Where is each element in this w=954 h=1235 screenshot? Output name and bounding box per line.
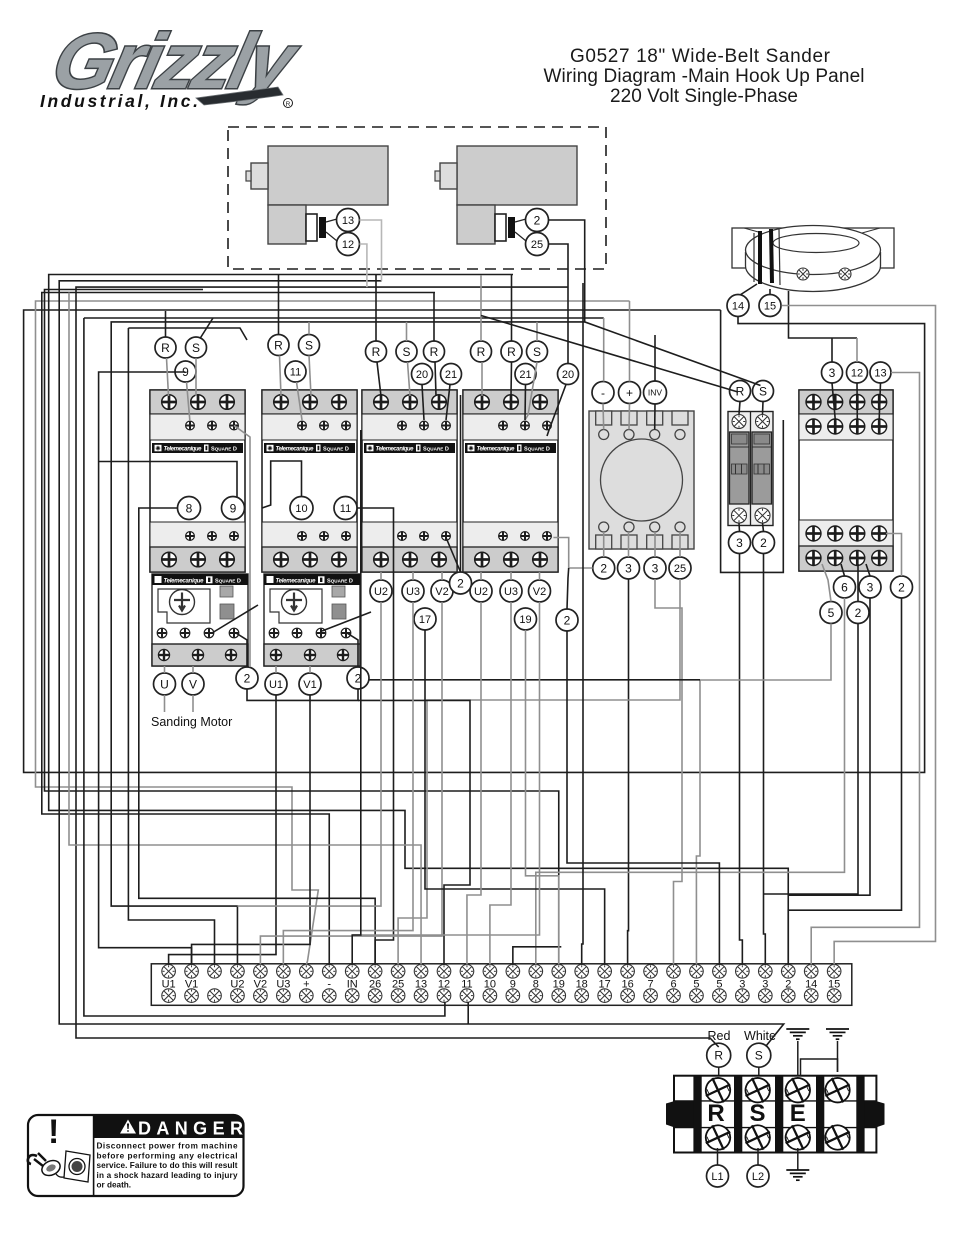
wire psu 3 wire to col 16 (627, 579, 630, 965)
terminal - column (322, 965, 336, 1003)
relay screw (872, 395, 887, 410)
wire KM1 OL diag (212, 605, 258, 633)
breaker screw top right (756, 415, 770, 429)
svg-text:Red: Red (708, 1029, 731, 1043)
relay screw (806, 395, 821, 410)
node 20 above KM3 (412, 364, 433, 385)
node S above breaker (753, 381, 774, 402)
relay screw (828, 526, 843, 541)
wire stub 21 KM4 dn (524, 385, 527, 421)
relay screw (872, 526, 887, 541)
relay screw (828, 551, 843, 566)
wire net D to col 19 (45, 290, 559, 965)
terminal 5 column (690, 965, 704, 1003)
block screw top (822, 1075, 853, 1106)
svg-text:2: 2 (534, 213, 541, 227)
svg-text:20: 20 (416, 369, 428, 381)
node R above breaker (730, 381, 751, 402)
svg-text:2: 2 (855, 606, 862, 620)
brake band screw left (797, 268, 809, 280)
brake band screw right (839, 268, 851, 280)
svg-text:U2: U2 (474, 586, 488, 598)
wire stub R2 KM4 dn (510, 362, 513, 396)
wire relay 5 to col 5 (696, 624, 831, 965)
wire relay 2b to col 3 (764, 624, 859, 895)
wire stub S KM3 up (406, 322, 408, 341)
node R above KM3 (366, 341, 387, 362)
wire KM4 2b wire to col 5 (567, 568, 569, 609)
svg-text:before performing any electric: before performing any electrical (97, 1151, 238, 1160)
node S above KM4 (527, 341, 548, 362)
wire net H minus bus (84, 317, 604, 319)
wire KM2 V1 stub (309, 666, 311, 673)
wire to 14 (740, 284, 757, 295)
node 9 above KM1 (175, 361, 196, 382)
terminal 15 column (827, 965, 841, 1003)
svg-text:2: 2 (760, 536, 767, 550)
svg-text:V2: V2 (435, 586, 448, 598)
node 5 below relay (820, 602, 842, 624)
wire stub 21 KM3 dn (446, 385, 450, 421)
svg-text:21: 21 (519, 369, 531, 381)
block screw bottom (822, 1122, 853, 1153)
solenoid 1 (belt tension) (246, 146, 388, 244)
svg-text:INV: INV (648, 388, 663, 398)
wire breaker 3 wire (740, 554, 743, 965)
relay screw (872, 551, 887, 566)
wire node9 into KM1 (99, 462, 237, 497)
svg-text:20: 20 (562, 369, 574, 381)
svg-text:Disconnect power from machine: Disconnect power from machine (97, 1142, 238, 1151)
terminal 18 column (575, 965, 589, 1003)
wire stub R2 KM3 dn (435, 362, 436, 396)
label circle 25 (526, 233, 549, 256)
Grizzly Industrial logo (40, 17, 307, 111)
wire gap2 wire to col IN (352, 430, 361, 965)
node 2 below KM1 (236, 667, 258, 689)
label circle 15 (759, 295, 781, 317)
wire KM2 2 to col 12 (358, 700, 470, 964)
wire relay 3b to col 2 (788, 598, 870, 895)
wire breaker 2 stub (763, 523, 764, 532)
svg-text:3: 3 (829, 366, 836, 380)
wire KM2 2 wire (347, 633, 358, 667)
wire stub S KM4 dn (525, 362, 537, 420)
node 2b below relay (847, 602, 869, 624)
wire stub - dn (602, 404, 605, 430)
svg-text:Telemecanique: Telemecanique (376, 447, 415, 453)
wire stub S KM4 up (536, 322, 538, 341)
breaker screw top left (732, 415, 746, 429)
svg-text:✺: ✺ (367, 445, 373, 453)
wire net J drop (128, 328, 214, 965)
wire relay 3b stub (866, 564, 870, 576)
node 8 in KM1 (178, 497, 201, 520)
svg-text:3: 3 (736, 536, 743, 550)
label circle 13 (337, 209, 360, 232)
wire KM1 V down (192, 695, 194, 712)
wire L2 to screw (757, 1148, 759, 1165)
svg-text:R: R (372, 345, 381, 359)
ground symbol bottom (786, 1170, 809, 1180)
svg-text:U3: U3 (504, 586, 518, 598)
svg-text:E: E (790, 1100, 806, 1127)
block screw bottom (702, 1122, 733, 1153)
wire relay 2b stub (857, 564, 859, 602)
node + above power supply (619, 382, 641, 404)
wire stub R KM3 dn (377, 362, 381, 396)
wire KM4 U2 to col 11 (467, 602, 481, 965)
svg-text:13: 13 (342, 215, 354, 227)
block screw top (742, 1075, 773, 1106)
wire solenoid1 13 (360, 220, 382, 281)
wire stub R KM3 up (375, 275, 377, 341)
wire stub S KM3 dn (408, 362, 411, 396)
wire net B plus drop (629, 301, 631, 382)
wire S circle to screw (758, 1067, 760, 1075)
node U3 below KM4 (500, 580, 522, 602)
wire KM1 2 to KM2 2 u-link (247, 689, 358, 700)
title text (544, 46, 865, 107)
terminal 3 column (759, 965, 773, 1003)
svg-text:5: 5 (828, 606, 835, 620)
svg-text:17: 17 (419, 614, 431, 626)
svg-text:U2: U2 (374, 586, 388, 598)
wire KM2 2 right link (369, 679, 700, 681)
wire KM1 U stub (164, 666, 166, 673)
svg-text:25: 25 (674, 563, 686, 575)
terminal 17 column (598, 965, 612, 1003)
power terminal block (666, 1076, 885, 1153)
wire KM3 V2 to col V2 (260, 602, 442, 965)
wire net H diag to S KM1 (200, 318, 213, 339)
terminal U2 column (230, 965, 244, 1003)
wire relay 3 drop (831, 338, 833, 362)
terminal 10 column (483, 965, 497, 1003)
node V below KM1 (182, 673, 204, 695)
contactor KM2 (conveyor) (262, 390, 357, 572)
node L2 (747, 1165, 769, 1187)
brake band clamp bars (754, 229, 780, 285)
terminal blank column (208, 965, 222, 1003)
wire KM3 U2 to col U2 (237, 602, 381, 906)
wire KM2 V1 to col V1 (192, 695, 310, 965)
svg-text:R: R (707, 1100, 724, 1127)
svg-text:S: S (759, 384, 767, 398)
ground symbol top E (786, 1029, 809, 1039)
svg-text:2: 2 (898, 580, 905, 594)
wire psu 25 stub (679, 532, 681, 557)
node 2 below relay (891, 576, 913, 598)
wire jog E to spare (801, 1059, 838, 1076)
svg-text:S: S (192, 341, 200, 355)
wire stub 9 KM1 dn (187, 382, 190, 420)
wire KM1 V stub (192, 666, 194, 673)
svg-text:3: 3 (867, 580, 874, 594)
wire psu 2 wire to KM4 (553, 538, 592, 569)
wire KM1 2 wire (236, 633, 247, 667)
node V2 below KM3 (431, 580, 453, 602)
node 12 above relay (847, 362, 868, 383)
svg-text:2: 2 (600, 561, 607, 575)
svg-text:11: 11 (340, 503, 351, 515)
svg-text:Telemecanique: Telemecanique (276, 578, 317, 584)
circuit breaker 2-pole (728, 412, 773, 526)
svg-text:6: 6 (841, 580, 848, 594)
wire stub R2 KM4 up (511, 275, 513, 341)
svg-text:L2: L2 (752, 1171, 764, 1183)
wire col 12 bottom stub (467, 1002, 469, 1024)
wire breaker R diag (481, 316, 738, 393)
wire stub INV up (654, 335, 656, 381)
svg-text:V1: V1 (303, 679, 316, 691)
terminal 16 column (621, 965, 635, 1003)
terminal strip (151, 964, 852, 1006)
wire psu 3 stub (628, 532, 630, 557)
wire KM4 19 wire (526, 630, 559, 965)
node 21 above KM4 (515, 364, 536, 385)
wire stub R KM2 dn (280, 356, 282, 397)
svg-text:R: R (286, 101, 291, 108)
node 25 below power supply (669, 557, 691, 579)
danger label (28, 1113, 244, 1196)
wire net A breaker loop to brake band (24, 310, 925, 772)
terminal 19 column (552, 965, 566, 1003)
wire relay 12 stub (856, 383, 858, 419)
node U3 below KM3 (402, 580, 424, 602)
svg-text:14: 14 (732, 300, 744, 312)
terminal 14 column (804, 965, 818, 1003)
node 6 below relay (834, 576, 856, 598)
block screw bottom (782, 1122, 813, 1153)
wire KM3 17 wire to col 17 (425, 630, 605, 965)
relay 4-pole (799, 390, 893, 571)
svg-text:Wiring Diagram -Main Hook Up P: Wiring Diagram -Main Hook Up Panel (544, 66, 865, 87)
svg-text:8: 8 (186, 501, 193, 515)
svg-text:S: S (749, 1100, 765, 1127)
node 3b below power supply (644, 557, 666, 579)
wire R circle to screw (718, 1067, 720, 1075)
svg-text:in a shock hazard leading to i: in a shock hazard leading to injury (97, 1171, 238, 1180)
svg-text:V: V (189, 677, 197, 691)
wire net C2 to col minus (42, 293, 435, 965)
contactor KM4 (463, 390, 558, 572)
node 21 above KM3 (441, 364, 462, 385)
wire breaker R stub (739, 402, 740, 415)
wire relay 15 wire to col 15 (782, 306, 936, 965)
svg-text:R: R (477, 345, 486, 359)
wire net J to col blank (128, 328, 247, 340)
node S above KM1 (186, 337, 207, 358)
wire stub R KM1 up (165, 311, 167, 337)
wire stub 20 KM4 dn (547, 385, 566, 437)
wire net H minus drop (603, 318, 605, 382)
terminal 5 column (713, 965, 727, 1003)
svg-text:V2: V2 (533, 586, 546, 598)
terminal 12 column (437, 965, 451, 1003)
node V2 below KM4 (529, 580, 551, 602)
wire stub R KM4 dn (481, 362, 483, 396)
brake band ring (746, 226, 881, 292)
svg-text:3: 3 (652, 561, 659, 575)
node - above power supply (592, 382, 614, 404)
node 9 in KM1 (222, 497, 245, 520)
node INV above power supply (644, 381, 667, 404)
terminal V2 column (254, 965, 268, 1003)
wire E bottom to ground (797, 1148, 799, 1170)
node 10 in KM2 (290, 497, 313, 520)
wire relay 13 stub (879, 383, 880, 419)
wire KM2 OL diag (322, 612, 371, 631)
wire solenoid2 25 to node 20 (549, 244, 569, 364)
svg-text:Telemecanique: Telemecanique (164, 447, 203, 453)
node S bottom (747, 1043, 771, 1067)
svg-text:R: R (430, 345, 439, 359)
svg-text:✺: ✺ (468, 445, 474, 453)
svg-text:U3: U3 (406, 586, 420, 598)
wire stub R KM4 up (480, 275, 482, 341)
svg-text:12: 12 (851, 367, 863, 379)
node R right above KM3 (424, 341, 445, 362)
svg-text:15: 15 (764, 300, 776, 312)
breaker screw bottom left (732, 508, 747, 523)
wire relay 6 stub (841, 564, 845, 576)
wire relay 2 to col 2 (788, 598, 901, 965)
relay screw (850, 395, 865, 410)
wire psu 3b wire to col 6 (655, 579, 682, 965)
svg-text:+: + (626, 386, 633, 400)
wire relay 2 wire (886, 534, 902, 577)
wire KM3 V2 stub (441, 572, 443, 580)
terminal + column (300, 965, 314, 1003)
wire node11 chain to col 26 (357, 508, 394, 965)
node 17 below KM3 (414, 608, 436, 630)
relay screw (806, 526, 821, 541)
ground symbol top right (826, 1029, 849, 1039)
terminal 6 column (667, 965, 681, 1003)
svg-text:Industrial, Inc.: Industrial, Inc. (40, 91, 198, 111)
wire stub R KM2 up (278, 275, 280, 335)
svg-text:White: White (744, 1029, 776, 1043)
wire KM3 U3 stub (412, 572, 414, 580)
relay screw (828, 419, 843, 434)
svg-text:21: 21 (445, 369, 457, 381)
wire relay 3 top wire (789, 291, 858, 338)
wire KM4 U3 to col 10 (490, 602, 511, 965)
wire psu 2 stub (603, 532, 605, 557)
terminal 13 column (414, 965, 428, 1003)
wire net B gray to plus column (36, 301, 630, 965)
wire relay 12 top wire (856, 338, 858, 362)
svg-text:Telemecanique: Telemecanique (276, 447, 315, 453)
wire KM4 V2 to col IN (352, 602, 539, 935)
wire psu 25 wire to col 25 (398, 579, 680, 965)
node 2 right of KM4 (556, 609, 578, 631)
wire breaker 2 wire (764, 554, 766, 965)
svg-text:service. Failure to do this wi: service. Failure to do this will result (97, 1161, 238, 1170)
node 3 below relay (859, 576, 881, 598)
node R above KM1 (155, 337, 176, 358)
svg-text:G0527 18" Wide-Belt Sander: G0527 18" Wide-Belt Sander (570, 46, 831, 67)
wire stub S KM2 dn (309, 356, 311, 397)
contactor KM3 (362, 390, 457, 572)
terminal 3 column (736, 965, 750, 1003)
svg-text:-: - (601, 386, 605, 400)
wire ground to E screw (797, 1041, 799, 1076)
svg-text:R: R (507, 345, 516, 359)
wire KM3 U2 stub (380, 572, 382, 580)
wire net F solenoid12 feed (76, 287, 719, 1047)
contactor KM1 (sanding motor) (150, 390, 245, 572)
svg-text:R: R (274, 338, 283, 352)
relay screw (806, 419, 821, 434)
node R right above KM4 (501, 341, 522, 362)
wire solenoid2 2 to breaker S (549, 220, 761, 386)
wire KM4 U2 stub (480, 572, 482, 580)
label circle 2 (526, 209, 549, 232)
wire stub 11 KM2 dn (297, 382, 303, 420)
svg-text:3: 3 (625, 561, 632, 575)
svg-text:10: 10 (295, 503, 307, 515)
wire col 9 branch (513, 947, 561, 965)
node 2 below power supply (593, 557, 615, 579)
wire solenoid1 12 (360, 244, 367, 287)
terminal U3 column (276, 965, 290, 1003)
terminal 25 column (391, 965, 405, 1003)
node U2 below KM4 (470, 580, 492, 602)
relay screw (850, 419, 865, 434)
wire relay 3 stub (832, 383, 835, 419)
node U1 below KM2 (265, 673, 287, 695)
solenoid 2 (brake) (435, 146, 577, 244)
breaker screw bottom right (755, 508, 770, 523)
wire KM1 2 gap wire (234, 426, 250, 668)
power supply module (589, 411, 694, 549)
terminal 7 column (644, 965, 658, 1003)
svg-text:13: 13 (874, 367, 886, 379)
terminal U1 column (162, 965, 176, 1003)
node R bottom (707, 1043, 731, 1067)
node 13 above relay (870, 362, 891, 383)
node L1 (707, 1165, 729, 1187)
terminal 8 column (529, 965, 543, 1003)
terminal 11 column (460, 965, 474, 1003)
node U2 below KM3 (370, 580, 392, 602)
wire L1 to screw (717, 1148, 719, 1165)
node S above KM3 (396, 341, 417, 362)
wire breaker box wire (721, 310, 784, 572)
node 3 above relay (822, 362, 843, 383)
node 2 below breaker (753, 532, 775, 554)
svg-text:R: R (714, 1049, 723, 1063)
wire stub R KM1 dn (167, 358, 169, 396)
wire node10 chain (262, 461, 302, 508)
node 19 below KM4 (515, 608, 537, 630)
label circle 12 (337, 233, 360, 256)
dashed enclosure box (228, 127, 606, 269)
block screw bottom (742, 1122, 773, 1153)
svg-text:11: 11 (290, 366, 301, 378)
node 11 in KM2 (334, 497, 357, 520)
node U below KM1 (154, 673, 176, 695)
wire gap4 wire to col 18 (582, 283, 583, 965)
brake band back plate (732, 228, 894, 268)
wire net H under strip (84, 318, 445, 1016)
wire KM3 2 gap wire (460, 395, 462, 572)
terminal 2 column (781, 965, 795, 1003)
wire psu 3b stub (654, 532, 656, 557)
svg-text:Telemecanique: Telemecanique (477, 447, 516, 453)
